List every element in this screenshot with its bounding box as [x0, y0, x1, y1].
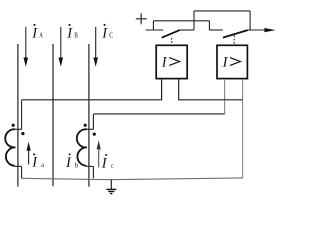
svg-text:C: C [109, 31, 113, 40]
svg-text:A: A [39, 31, 43, 40]
svg-text:b: b [75, 160, 78, 169]
svg-text:I: I [222, 55, 229, 71]
svg-text:a: a [41, 160, 44, 169]
svg-text:I: I [101, 26, 108, 42]
svg-text:c: c [111, 161, 114, 170]
svg-text:I: I [161, 55, 168, 71]
svg-text:I: I [65, 155, 72, 171]
svg-text:I: I [66, 26, 73, 42]
svg-text:B: B [74, 31, 78, 40]
svg-text:I: I [101, 156, 108, 172]
svg-text:I: I [31, 26, 38, 42]
svg-text:I: I [31, 155, 38, 171]
